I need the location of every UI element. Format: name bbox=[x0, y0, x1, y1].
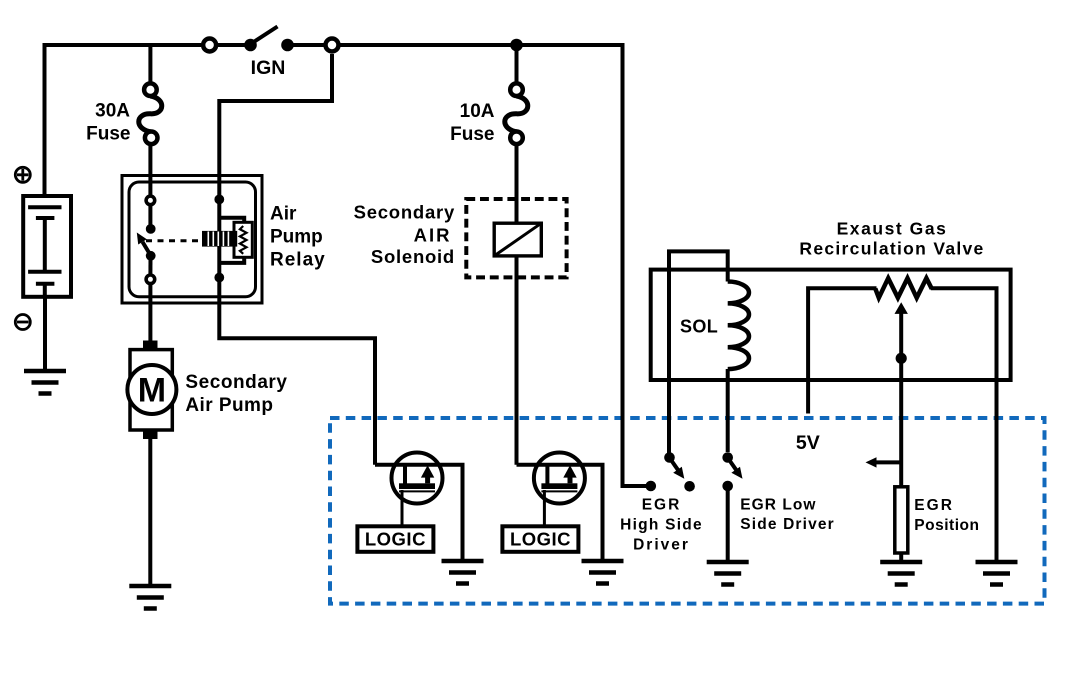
svg-text:AIR: AIR bbox=[414, 225, 452, 246]
svg-text:Solenoid: Solenoid bbox=[371, 246, 455, 267]
svg-text:10A: 10A bbox=[460, 101, 495, 122]
svg-text:Side Driver: Side Driver bbox=[740, 516, 835, 533]
svg-text:Fuse: Fuse bbox=[450, 124, 494, 145]
svg-text:30A: 30A bbox=[95, 101, 130, 122]
svg-text:SOL: SOL bbox=[680, 316, 718, 336]
svg-text:Driver: Driver bbox=[633, 536, 690, 553]
svg-text:Exaust Gas: Exaust Gas bbox=[837, 218, 948, 238]
svg-text:EGR Low: EGR Low bbox=[740, 496, 816, 513]
svg-text:Position: Position bbox=[914, 517, 979, 534]
svg-text:M: M bbox=[138, 372, 166, 410]
svg-text:Air Pump: Air Pump bbox=[185, 395, 273, 416]
svg-text:IGN: IGN bbox=[251, 57, 286, 79]
svg-text:Air: Air bbox=[270, 203, 297, 224]
svg-text:High Side: High Side bbox=[620, 517, 703, 534]
svg-text:5V: 5V bbox=[796, 432, 820, 454]
svg-text:EGR: EGR bbox=[642, 497, 682, 514]
svg-text:EGR: EGR bbox=[914, 497, 954, 514]
svg-text:LOGIC: LOGIC bbox=[510, 528, 571, 549]
svg-text:Fuse: Fuse bbox=[86, 123, 130, 144]
svg-text:Relay: Relay bbox=[270, 249, 326, 270]
svg-text:Pump: Pump bbox=[270, 226, 323, 247]
svg-text:Secondary: Secondary bbox=[354, 201, 455, 222]
svg-text:LOGIC: LOGIC bbox=[365, 528, 426, 549]
svg-text:Secondary: Secondary bbox=[185, 372, 287, 393]
svg-text:Recirculation Valve: Recirculation Valve bbox=[799, 239, 984, 259]
